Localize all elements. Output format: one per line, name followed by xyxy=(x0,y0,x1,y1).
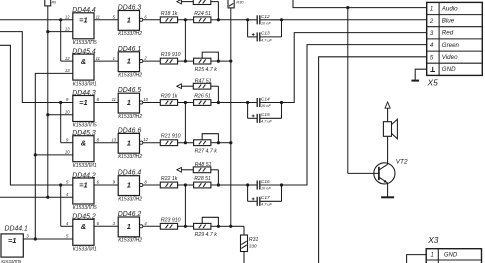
wire bus from R30 down to row F xyxy=(230,8,232,226)
svg-text:К1533ЛП5: К1533ЛП5 xyxy=(73,40,97,46)
wire node C-D link xyxy=(184,103,186,143)
capacitor C15 (4.7 uF electrolytic) xyxy=(247,103,249,119)
svg-text:2: 2 xyxy=(429,19,434,25)
wire DD44.1 output feed up to DD45.4 pin 13 xyxy=(35,73,73,239)
svg-text:R9: R9 xyxy=(52,0,56,4)
svg-text:К1533ЛН2: К1533ЛН2 xyxy=(118,31,142,37)
svg-text:DD46.1: DD46.1 xyxy=(118,46,142,53)
junction row B on bus xyxy=(229,60,232,63)
svg-text:C13: C13 xyxy=(261,31,270,37)
svg-text:10 nF: 10 nF xyxy=(261,20,272,25)
svg-text:GND: GND xyxy=(444,252,458,258)
svg-text:4.7 uF: 4.7 uF xyxy=(261,119,273,124)
wiper tap of R29 xyxy=(202,217,218,226)
wire row A east to capacitor xyxy=(218,19,247,21)
wire inverter output row F to resistor xyxy=(143,225,161,227)
wire input from left edge down to DD44.2 pin 5 xyxy=(0,45,73,185)
resistor R20 (1k) xyxy=(160,100,177,106)
svg-text:=1: =1 xyxy=(79,16,87,25)
wire to DD45.3 pin 10 xyxy=(35,154,73,156)
wire to DD45.4 pin 12 xyxy=(61,60,73,62)
svg-text:GND: GND xyxy=(442,66,456,73)
wire row E east to capacitor xyxy=(218,184,247,186)
wiper tap of R27 xyxy=(202,134,218,143)
inverter DD46.5 (К1533ЛН2) xyxy=(118,93,139,113)
svg-text:13: 13 xyxy=(111,137,116,142)
resistor R31 (330) vertical xyxy=(231,225,244,227)
inverter DD46.1 (К1533ЛН2) xyxy=(118,52,139,72)
svg-text:К1533ЛП5: К1533ЛП5 xyxy=(73,123,97,129)
svg-text:R22 1k: R22 1k xyxy=(161,176,178,182)
junction to DD45.3 pin 9 xyxy=(59,101,62,104)
transistor VT2 (NPN) xyxy=(379,164,388,170)
wire row B to bus xyxy=(218,60,230,62)
node row D left junction xyxy=(184,141,187,144)
svg-text:13: 13 xyxy=(65,26,70,31)
resistor R18 (1k) xyxy=(160,17,177,23)
svg-text:1: 1 xyxy=(431,253,434,259)
gate DD44.2 (К1533ЛП5) xyxy=(73,178,94,204)
junction feed to DD44.2 pin 4 xyxy=(46,196,49,199)
svg-text:Video: Video xyxy=(442,54,458,61)
svg-text:К1533ЛИ1: К1533ЛИ1 xyxy=(73,163,97,169)
wire to DD45.3 pin 9 xyxy=(61,142,73,144)
svg-text:12: 12 xyxy=(143,137,148,142)
svg-text:C16: C16 xyxy=(261,179,270,185)
wire row D to right node xyxy=(211,142,219,144)
wire row C east to capacitor xyxy=(218,102,247,104)
svg-text:DD45.3: DD45.3 xyxy=(72,130,96,137)
svg-text:DD45.2: DD45.2 xyxy=(72,214,96,221)
ground at X5 GND pin xyxy=(415,69,427,80)
node row A capacitor left xyxy=(246,18,249,21)
svg-text:DD44.1: DD44.1 xyxy=(5,226,29,233)
capacitor C17 (4.7 uF electrolytic) xyxy=(247,185,249,201)
node row C left junction xyxy=(184,101,187,104)
node row B left junction xyxy=(184,60,187,63)
svg-text:Green: Green xyxy=(442,42,460,49)
svg-text:4.7 uF: 4.7 uF xyxy=(261,202,273,207)
svg-text:R23 910: R23 910 xyxy=(161,217,181,223)
wire row F node segment xyxy=(178,225,194,227)
svg-text:R24 51: R24 51 xyxy=(194,11,211,17)
svg-text:R28 51: R28 51 xyxy=(194,176,211,182)
svg-text:&: & xyxy=(81,138,86,147)
wire row D node segment xyxy=(178,142,194,144)
inverter DD46.2 (К1533ЛН2) xyxy=(118,217,139,237)
inverter DD46.3 (К1533ЛН2) xyxy=(118,11,139,31)
svg-text:К1533ЛИ1: К1533ЛИ1 xyxy=(73,247,97,253)
wire row A node segment xyxy=(178,19,194,21)
svg-text:11: 11 xyxy=(96,15,100,20)
wire row E to right node xyxy=(211,184,219,186)
node row E right junction xyxy=(217,183,220,186)
svg-text:К1533ЛН2: К1533ЛН2 xyxy=(118,154,142,160)
inverter DD46.6 (К1533ЛН2) xyxy=(118,133,139,153)
wire row E node segment xyxy=(178,184,194,186)
svg-text:=1: =1 xyxy=(8,236,16,245)
wire Red line row C to X5 pin 3 xyxy=(282,33,427,103)
wire row F to right node xyxy=(211,225,219,227)
svg-text:DD46.4: DD46.4 xyxy=(118,170,142,177)
svg-text:DD45.4: DD45.4 xyxy=(72,48,96,55)
wire row F to bus xyxy=(218,225,230,227)
node row E left junction xyxy=(184,183,187,186)
junction row D on bus xyxy=(229,141,232,144)
wire X3 pin 1 to bottom edge xyxy=(407,255,427,263)
svg-text:1: 1 xyxy=(127,222,131,231)
svg-text:C17: C17 xyxy=(261,195,270,201)
variable resistor R29 (4.7 k) xyxy=(194,223,211,229)
svg-text:R18 1k: R18 1k xyxy=(161,11,178,17)
svg-text:VT2: VT2 xyxy=(396,159,408,166)
speaker BA (loudspeaker symbol) xyxy=(385,102,390,108)
wire branch down xyxy=(60,185,62,226)
wire to DD44.3 pin 10 xyxy=(48,114,73,116)
connector X5 xyxy=(427,2,483,75)
wire node A-B link xyxy=(184,20,186,61)
svg-text:12: 12 xyxy=(65,56,70,61)
wire gate output row F to inverter input xyxy=(94,225,118,227)
svg-text:DD44.4: DD44.4 xyxy=(72,7,96,14)
svg-text:R19 910: R19 910 xyxy=(161,52,181,58)
svg-text:R48 51: R48 51 xyxy=(195,162,212,168)
wire to VT2 base xyxy=(348,172,379,174)
wire row C node segment xyxy=(178,102,194,104)
svg-text:К1533ЛН2: К1533ЛН2 xyxy=(118,238,142,244)
junction feed to DD44.3 pin 10 xyxy=(46,113,49,116)
wire gate output row B to inverter input xyxy=(94,60,118,62)
svg-text:&: & xyxy=(81,222,86,231)
svg-text:12: 12 xyxy=(65,15,70,20)
svg-text:R25 4.7 k: R25 4.7 k xyxy=(195,67,218,73)
variable resistor R27 (4.7 k) xyxy=(194,140,211,146)
node row A left junction xyxy=(184,18,187,21)
resistor R47 (51) with off-sheet arrow to row C xyxy=(177,84,182,89)
node row E capacitor right xyxy=(280,183,283,186)
svg-text:R27 4.7 k: R27 4.7 k xyxy=(195,149,218,155)
gate DD45.3 (К1533ЛИ1) xyxy=(73,136,94,162)
capacitor C16 (10 nF) xyxy=(248,184,257,186)
capacitor C14 (10 nF) xyxy=(248,102,257,104)
junction audio branch to VT2 xyxy=(346,6,349,9)
svg-text:1: 1 xyxy=(430,7,433,13)
junction to DD45.2 pin 4 xyxy=(59,183,62,186)
svg-text:10: 10 xyxy=(65,150,70,155)
resistor R26 (51) xyxy=(194,100,211,106)
svg-text:Audio: Audio xyxy=(441,5,458,12)
wire Video line from bottom edge to X5 pin 5 xyxy=(319,57,427,263)
svg-text:=1: =1 xyxy=(79,181,87,190)
resistor R22 (1k) xyxy=(160,182,177,188)
resistor R24 (51) xyxy=(194,17,211,23)
wire branch down xyxy=(60,20,62,61)
svg-text:10 nF: 10 nF xyxy=(261,186,272,191)
node row F right junction xyxy=(217,225,220,228)
resistor R28 (51) xyxy=(194,182,211,188)
node row C right junction xyxy=(217,101,220,104)
resistor (top, label off-sheet) with off-sheet arrow to row A xyxy=(177,0,182,4)
svg-text:1: 1 xyxy=(113,56,115,61)
resistor R9 (top-left, clipped at sheet edge) xyxy=(45,0,51,6)
gate DD45.4 (К1533ЛИ1) xyxy=(73,54,94,80)
svg-text:К1533ЛП5: К1533ЛП5 xyxy=(73,205,97,211)
wire Blue line row A to X5 pin 2 xyxy=(282,19,427,21)
svg-text:R31: R31 xyxy=(249,237,259,243)
wire inverter output row D to resistor xyxy=(143,142,161,144)
resistor R21 (910) xyxy=(160,140,177,146)
svg-text:R21 910: R21 910 xyxy=(161,134,181,140)
wire inverter output row E to resistor xyxy=(143,184,161,186)
svg-text:10: 10 xyxy=(65,109,70,114)
wire inverter output row A to resistor xyxy=(143,19,161,21)
wire inverter output row B to resistor xyxy=(143,60,161,62)
resistor R48 (51) with off-sheet arrow to row E xyxy=(177,168,182,173)
node row A capacitor right xyxy=(280,18,283,21)
node row C capacitor right xyxy=(280,101,283,104)
node row B right junction xyxy=(217,60,220,63)
svg-text:К1533ЛП5: К1533ЛП5 xyxy=(1,259,22,263)
svg-text:13: 13 xyxy=(65,68,70,73)
wire input from left edge down to DD44.3 pin 9 xyxy=(0,32,73,103)
wire branch down xyxy=(60,103,62,143)
wire audio branch down xyxy=(347,8,349,174)
svg-text:1: 1 xyxy=(127,181,131,190)
junction feed to DD44.4 pin 13 xyxy=(46,30,49,33)
svg-text:X5: X5 xyxy=(427,78,439,88)
svg-text:4.7 uF: 4.7 uF xyxy=(261,37,273,42)
svg-text:10: 10 xyxy=(143,97,148,102)
capacitor C13 (4.7 uF electrolytic) xyxy=(247,20,249,37)
wire gate output row C to inverter input xyxy=(94,102,118,104)
wire node E-F link xyxy=(184,185,186,226)
svg-text:DD44.3: DD44.3 xyxy=(72,90,96,97)
svg-text:К1533ЛИ1: К1533ЛИ1 xyxy=(73,81,97,87)
svg-text:R47 51: R47 51 xyxy=(195,78,212,84)
wire row A to right node xyxy=(211,19,219,21)
svg-text:C12: C12 xyxy=(261,14,270,20)
svg-text:1: 1 xyxy=(127,138,131,147)
svg-text:DD46.2: DD46.2 xyxy=(118,211,142,218)
svg-text:=1: =1 xyxy=(79,98,87,107)
junction row F on bus xyxy=(229,225,232,228)
gate DD44.3 (К1533ЛП5) xyxy=(73,96,94,122)
svg-text:DD46.6: DD46.6 xyxy=(118,127,142,134)
gate DD44.4 (К1533ЛП5) xyxy=(73,13,94,39)
junction on DD44.1 output xyxy=(34,237,37,240)
svg-text:R20 1k: R20 1k xyxy=(161,94,178,100)
svg-text:Red: Red xyxy=(442,30,454,37)
resistor R30 (top, clipped) xyxy=(228,0,234,8)
wire to DD45.2 pin 4 xyxy=(61,225,73,227)
ground under VT2 emitter xyxy=(387,183,389,197)
wire to DD44.4 pin 13 xyxy=(48,31,73,33)
node row E capacitor left xyxy=(246,183,249,186)
svg-text:К1533ЛН2: К1533ЛН2 xyxy=(118,72,142,78)
svg-text:1: 1 xyxy=(127,15,131,24)
wire row B node segment xyxy=(178,60,194,62)
wire gate output row D to inverter input xyxy=(94,142,118,144)
svg-text:DD46.5: DD46.5 xyxy=(118,87,142,94)
svg-text:R29 4.7 k: R29 4.7 k xyxy=(195,232,218,238)
svg-text:1: 1 xyxy=(127,57,131,66)
svg-text:10 nF: 10 nF xyxy=(261,103,272,108)
wire vertical feed from R9 down left side xyxy=(47,6,49,197)
svg-text:C15: C15 xyxy=(261,112,270,118)
wire gate output row A to inverter input xyxy=(94,19,118,21)
node row A right junction xyxy=(217,18,220,21)
resistor R23 (910) xyxy=(160,223,177,229)
svg-text:R30: R30 xyxy=(236,0,244,4)
wiper tap of R25 xyxy=(202,52,218,61)
wire input from left edge to DD44.4 pin 12 xyxy=(0,19,73,21)
svg-text:11: 11 xyxy=(112,97,116,102)
svg-text:X3: X3 xyxy=(427,235,439,245)
svg-text:Blue: Blue xyxy=(442,18,455,25)
wire gate output row E to inverter input xyxy=(94,184,118,186)
svg-text:К1533ЛН2: К1533ЛН2 xyxy=(118,114,142,120)
variable resistor R25 (4.7 k) xyxy=(194,58,211,64)
inverter DD46.4 (К1533ЛН2) xyxy=(118,176,139,196)
wire DD44.1 output to DD45.2 pin 5 xyxy=(23,238,73,240)
capacitor C12 (10 nF) xyxy=(248,19,257,21)
svg-text:DD46.3: DD46.3 xyxy=(118,5,142,12)
node row F left junction xyxy=(184,225,187,228)
wire Green line row E to X5 pin 4 xyxy=(282,45,427,185)
node row C capacitor left xyxy=(246,101,249,104)
resistor R19 (910) xyxy=(160,58,177,64)
svg-text:&: & xyxy=(81,57,86,66)
svg-text:К1533ЛН2: К1533ЛН2 xyxy=(118,196,142,202)
wire Audio line from top edge xyxy=(293,0,427,8)
svg-text:330: 330 xyxy=(249,243,257,248)
svg-text:11: 11 xyxy=(96,56,100,61)
wire row B to right node xyxy=(211,60,219,62)
gate DD44.1 (К1533ЛП5) xyxy=(1,234,23,257)
junction to DD45.3 pin 10 xyxy=(34,153,37,156)
svg-text:R26 51: R26 51 xyxy=(194,94,211,100)
junction to DD45.4 pin 12 xyxy=(59,18,62,21)
svg-text:1: 1 xyxy=(127,98,131,107)
svg-text:DD44.2: DD44.2 xyxy=(72,172,96,179)
wire row C to right node xyxy=(211,102,219,104)
wire inverter output row C to resistor xyxy=(143,102,161,104)
svg-text:C14: C14 xyxy=(261,97,270,103)
gate DD45.2 (К1533ЛИ1) xyxy=(73,219,94,245)
wire input from left edge to DD44.2 pin 4 xyxy=(0,196,73,198)
wire row D to bus xyxy=(218,142,230,144)
node row D right junction xyxy=(217,141,220,144)
